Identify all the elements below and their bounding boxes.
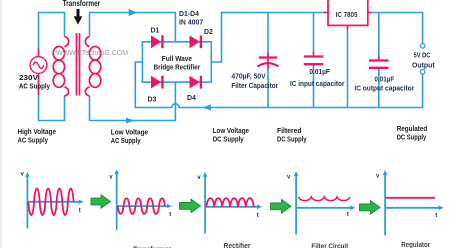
- svg-text:470µF, 50V: 470µF, 50V: [231, 73, 266, 80]
- svg-text:D3: D3: [148, 97, 157, 104]
- svg-text:D1: D1: [151, 27, 160, 34]
- svg-text:IC 7805: IC 7805: [336, 12, 358, 19]
- svg-text:IC input capacitor: IC input capacitor: [290, 81, 345, 88]
- svg-text:Bridge Rectifier: Bridge Rectifier: [154, 64, 201, 71]
- svg-text:D4: D4: [187, 95, 196, 102]
- svg-text:D2: D2: [204, 29, 213, 36]
- svg-text:DC Supply: DC Supply: [277, 137, 307, 144]
- svg-text:WWW.ETechnoG.COM: WWW.ETechnoG.COM: [56, 48, 128, 57]
- svg-text:0.01µF: 0.01µF: [374, 77, 395, 84]
- svg-text:DC Supply: DC Supply: [213, 137, 244, 144]
- svg-text:Regulator: Regulator: [401, 242, 430, 248]
- svg-text:Low Voltage: Low Voltage: [213, 128, 249, 135]
- svg-text:Filtered: Filtered: [277, 128, 302, 135]
- svg-text:Rectifier: Rectifier: [224, 243, 251, 248]
- svg-text:AC Supply: AC Supply: [111, 138, 141, 145]
- svg-text:t: t: [435, 213, 437, 219]
- svg-text:0.01µF: 0.01µF: [309, 69, 330, 76]
- svg-text:Full Wave: Full Wave: [162, 56, 192, 63]
- svg-text:230V: 230V: [19, 75, 38, 82]
- svg-text:Output: Output: [412, 62, 435, 69]
- svg-text:t: t: [79, 208, 81, 214]
- svg-text:DC Supply: DC Supply: [397, 135, 427, 142]
- svg-text:t: t: [169, 212, 171, 218]
- svg-text:t: t: [257, 213, 259, 219]
- svg-text:Filter Capacitor: Filter Capacitor: [231, 83, 278, 90]
- svg-text:AC Supply: AC Supply: [19, 84, 50, 91]
- svg-text:Low Voltage: Low Voltage: [111, 129, 148, 136]
- svg-text:IC output capacitor: IC output capacitor: [354, 86, 414, 93]
- svg-text:IN 4007: IN 4007: [179, 19, 203, 26]
- svg-text:AC Supply: AC Supply: [18, 137, 49, 144]
- svg-text:5V DC: 5V DC: [414, 53, 431, 60]
- svg-text:High Voltage: High Voltage: [18, 129, 57, 136]
- svg-text:D1-D4: D1-D4: [179, 11, 199, 18]
- svg-text:Transformer: Transformer: [63, 0, 101, 8]
- svg-text:Filter Circuit: Filter Circuit: [311, 243, 348, 248]
- svg-text:Regulated: Regulated: [397, 126, 428, 133]
- svg-text:t: t: [347, 212, 349, 218]
